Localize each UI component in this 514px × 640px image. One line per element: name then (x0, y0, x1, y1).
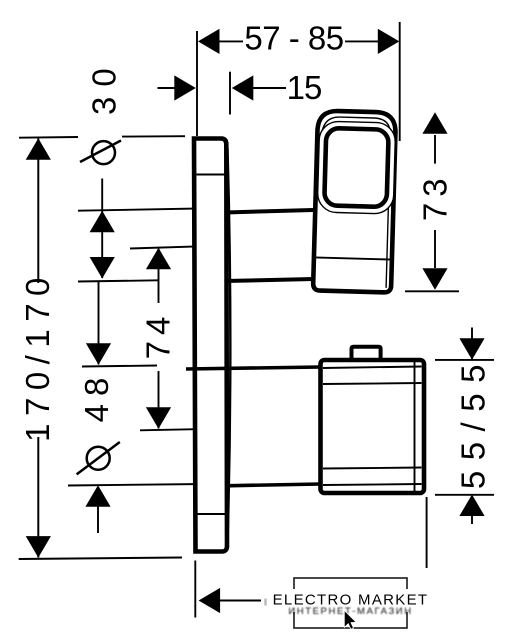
svg-text:55/55: 55/55 (454, 354, 491, 489)
extension line 55/55 bottom (435, 494, 494, 496)
arrow 74 top (146, 248, 171, 269)
arrow d48 top (86, 343, 111, 365)
arrow 74 bottom (146, 407, 171, 429)
svg-text:30: 30 (86, 58, 123, 115)
svg-text:170/170: 170/170 (19, 270, 56, 442)
arrow d30 bottom (90, 257, 115, 279)
extension line bottom left (wall plane) (194, 561, 196, 618)
arrow bottom left (199, 588, 221, 613)
diameter symbol for 48 (87, 447, 110, 470)
extension line bottom right (knob face) (426, 497, 428, 568)
dimension line d30 (101, 179, 103, 279)
extension line 170 bottom (19, 558, 182, 560)
extension line 74 bottom (140, 429, 215, 431)
arrow 55/55 top (459, 338, 484, 360)
arrow 170 bottom (26, 536, 51, 558)
mouse cursor (344, 610, 356, 629)
lower stem (d48) top edge (186, 367, 321, 369)
thermostat knob body (321, 360, 425, 493)
dimension line d48 bottom tail (97, 506, 99, 533)
extension line left (wall plane, above plate) (196, 31, 198, 136)
knob grip band top line (323, 383, 422, 384)
handle window ring (324, 128, 389, 207)
extension line 55/55 top (435, 359, 494, 361)
wall plate outline (194, 139, 227, 552)
svg-text:57 - 85: 57 - 85 (244, 19, 343, 56)
handle base line (314, 257, 391, 259)
dimension line d48 top (98, 282, 100, 365)
knob grip band bottom line (323, 468, 422, 469)
extension tick for 15 (plate front) (229, 72, 231, 115)
arrow 15 right (232, 75, 254, 100)
arrow 55/55 bottom (459, 495, 484, 517)
svg-text:ИНТЕРНЕТ-МАГАЗИН: ИНТЕРНЕТ-МАГАЗИН (288, 606, 412, 617)
handle (lever) group (313, 110, 396, 292)
arrow 73 bottom (422, 268, 447, 290)
upper stem (cartridge d30) top edge (225, 210, 313, 213)
handle inner offset line (317, 117, 391, 288)
faint remnant mark (264, 599, 267, 606)
svg-text:74: 74 (140, 311, 177, 360)
dimension line 170/170 (37, 139, 39, 284)
knob inner line (stem bottom continuation) (323, 484, 422, 485)
extension line d30 top (78, 208, 225, 211)
arrow 57-85 left (198, 29, 220, 54)
arrow 57-85 right (378, 29, 400, 54)
dimension line 74 (158, 249, 160, 304)
knob inner vertical line (414, 361, 416, 492)
handle outer shell (313, 110, 396, 292)
arrow 170 top (26, 138, 51, 160)
plate division line top (197, 174, 226, 176)
thermostat knob tab (352, 347, 381, 359)
extension line d48 bottom (68, 484, 205, 486)
extension line d30 bottom (78, 280, 158, 281)
bottom dimension line (219, 600, 261, 602)
svg-text:48: 48 (78, 370, 115, 423)
extension line right (handle outer face) (399, 22, 401, 141)
wall plate front rim curve (228, 148, 231, 544)
dimension line 55/55 bottom tail (471, 514, 473, 524)
knob inner line (stem top continuation) (323, 367, 422, 369)
extension line 170 top (19, 136, 78, 139)
plate division line bottom (197, 513, 226, 515)
handle window outer outline (317, 121, 396, 214)
dimension line 73 (434, 135, 436, 164)
svg-text:15: 15 (287, 69, 322, 106)
extension line d48 top (82, 366, 157, 367)
dimension line 57-85 (219, 40, 243, 42)
svg-text:73: 73 (417, 172, 454, 221)
dimension line 15 right tail (253, 87, 286, 89)
extension line 73 bottom (405, 290, 459, 292)
extension line 74 top (130, 246, 217, 249)
watermark text background (272, 589, 428, 612)
lower stem bottom edge (225, 484, 321, 486)
arrow 73 top (422, 112, 447, 134)
arrow 15 left (174, 75, 196, 100)
dimension line 55/55 top (471, 328, 473, 360)
diameter symbol for 30 (92, 141, 115, 164)
dimension line 15 left tail (158, 87, 177, 89)
arrow d48 bottom (85, 485, 110, 507)
watermark box (294, 578, 407, 628)
arrow d30 top (90, 211, 115, 233)
upper stem bottom edge (225, 279, 314, 281)
